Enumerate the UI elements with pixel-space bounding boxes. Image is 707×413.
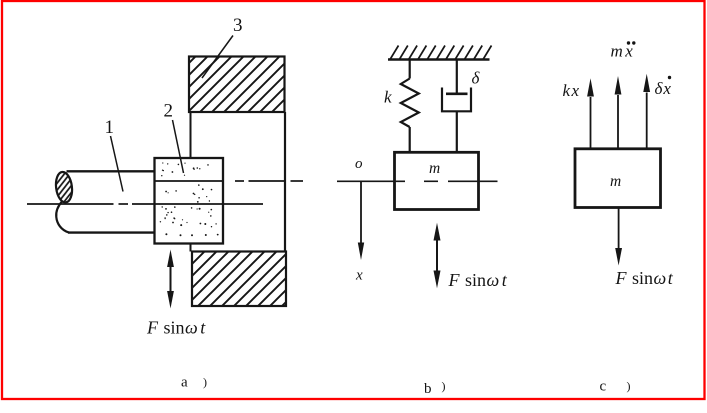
svg-text:o: o [355, 156, 363, 172]
svg-text:): ) [442, 379, 446, 393]
force arrow F sin wt (down, part c) [615, 208, 622, 266]
svg-text:2: 2 [164, 101, 174, 122]
svg-text:m: m [610, 173, 621, 190]
housing bottom block (hatched) [192, 252, 286, 307]
svg-text:b: b [424, 381, 432, 397]
svg-text:kx: kx [563, 81, 581, 100]
housing left wall lower segment [190, 243, 192, 252]
spring k zigzag [401, 79, 419, 128]
damper cylinder cup [442, 88, 471, 112]
svg-text:a: a [181, 375, 188, 391]
shaft left rounded end cap [56, 202, 69, 233]
spring k bottom lead [409, 127, 411, 153]
damper rod [456, 60, 458, 94]
spring k top lead [409, 60, 411, 79]
force arrow m x-dotdot (up) [615, 76, 622, 149]
svg-text:Fsinωt: Fsinωt [448, 270, 508, 290]
svg-text:): ) [203, 375, 207, 389]
svg-text:k: k [384, 88, 392, 107]
shaft axis centerline (dash-dot) [27, 203, 263, 205]
leader line for label 3 [202, 36, 233, 79]
excitation double arrow below bearing [167, 250, 174, 309]
shaft end section ellipse (hatched) [54, 171, 73, 203]
leader line for label 1 [111, 136, 124, 192]
damper bottom lead [456, 111, 458, 152]
x coordinate axis arrow [358, 181, 364, 260]
svg-text:mx: mx [611, 42, 636, 61]
svg-text:): ) [627, 379, 631, 393]
svg-text:δx: δx [655, 79, 672, 98]
force arrow delta x-dot (up) [643, 74, 650, 149]
svg-text:c: c [600, 379, 607, 395]
housing right wall [284, 112, 286, 252]
svg-text:x: x [355, 268, 363, 284]
leader line for label 2 [173, 120, 184, 173]
damper piston bar [446, 93, 468, 96]
svg-text:m: m [429, 160, 440, 177]
bearing block 2 (stippled rectangle) [155, 158, 224, 244]
svg-text:Fsinωt: Fsinωt [146, 318, 206, 338]
force arrow kx (up) [587, 78, 594, 149]
svg-text:3: 3 [233, 15, 243, 36]
bearing axis centerline (dash-dot) [155, 180, 304, 182]
mass block m (part b) [395, 152, 479, 209]
ceiling hatch marks [390, 46, 492, 60]
housing top block (hatched), part of housing 3 [189, 57, 285, 113]
svg-text:1: 1 [105, 117, 115, 138]
shaft 1 bottom outline [68, 231, 155, 233]
label delta x-dot with dot [655, 76, 672, 98]
excitation double arrow (part b) [434, 223, 441, 288]
label m x-dotdot with dots [611, 41, 636, 60]
horizontal centerline through mass (dash-dot) [337, 180, 498, 182]
housing left wall upper segment [190, 112, 192, 159]
shaft 1 top outline [67, 170, 155, 172]
svg-text:Fsinωt: Fsinωt [615, 268, 674, 288]
mass block m (part c) [575, 149, 661, 208]
svg-text:δ: δ [472, 69, 481, 88]
fixed ceiling line [388, 58, 490, 60]
